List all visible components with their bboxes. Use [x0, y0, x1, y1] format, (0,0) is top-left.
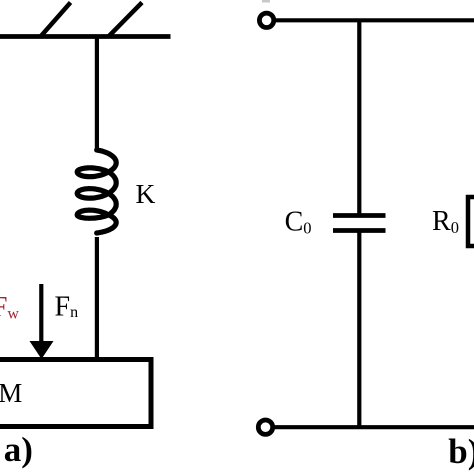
spring K coil: [77, 150, 116, 233]
terminal top: [259, 13, 273, 27]
svg-text:C0: C0: [285, 207, 312, 238]
svg-text:b): b): [448, 432, 474, 471]
svg-text:K: K: [136, 178, 156, 209]
svg-text:R0: R0: [432, 206, 459, 237]
wire bottom rail: [273, 425, 474, 429]
svg-text:a): a): [4, 430, 33, 469]
crop artifact mark top: [262, 0, 270, 3]
wall hatch 2: [109, 3, 142, 37]
svg-text:Fn: Fn: [55, 291, 79, 322]
force arrow Fn shaft: [39, 284, 43, 343]
wall hatch 1: [41, 3, 71, 37]
mass M box: [0, 360, 151, 427]
wire top rail: [274, 18, 474, 22]
wire ceiling to spring: [95, 37, 99, 151]
wire top rail to capacitor: [357, 20, 361, 215]
capacitor C0 top plate: [333, 213, 386, 218]
wire spring to mass: [95, 237, 99, 359]
svg-text:M: M: [0, 378, 22, 408]
svg-text:Fw: Fw: [0, 292, 19, 323]
capacitor C0 bottom plate: [333, 228, 386, 233]
wire capacitor to bottom rail: [357, 231, 361, 428]
resistor R0 box: [468, 197, 474, 246]
force arrow Fn head: [30, 341, 54, 359]
ceiling / wall line: [0, 34, 171, 39]
terminal bottom: [258, 420, 272, 434]
